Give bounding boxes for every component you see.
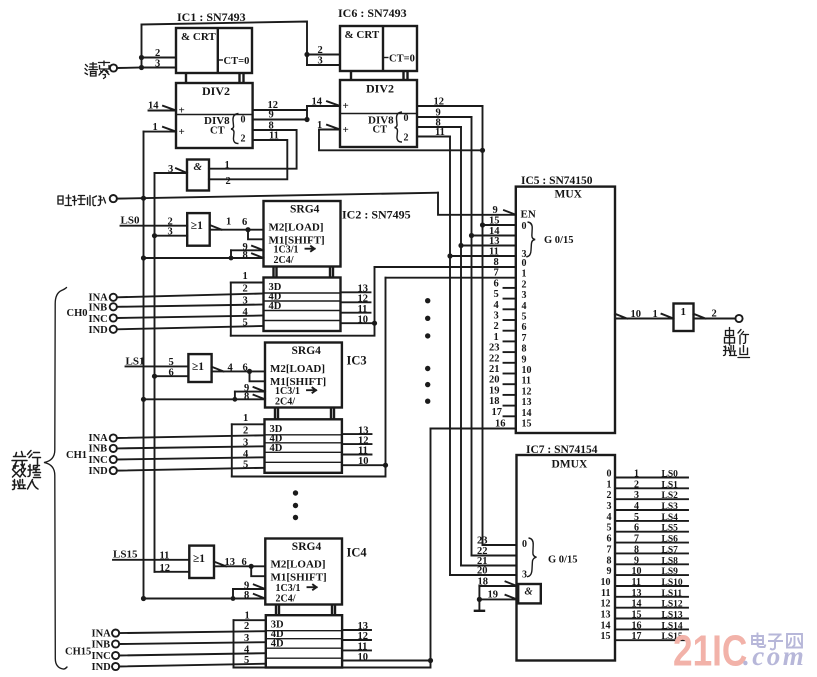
svg-text:14: 14: [522, 408, 532, 419]
node LS0 input: [121, 215, 188, 227]
svg-text:18: 18: [489, 396, 500, 407]
svg-text:1: 1: [494, 332, 499, 343]
wire IC4 output 10 to MUX input 15 and ring: [234, 429, 516, 668]
pin data inputs inner labels 0-15: [522, 258, 532, 430]
svg-text:& CRT: & CRT: [181, 31, 216, 43]
svg-text:CT: CT: [210, 126, 225, 137]
svg-text:& CRT: & CRT: [345, 29, 380, 41]
svg-text:LS15: LS15: [113, 549, 138, 561]
svg-text:≥1: ≥1: [192, 361, 204, 373]
svg-text:8: 8: [494, 257, 499, 268]
node LS0-LS15 output labels: [662, 470, 683, 643]
wire IC2 clock pins 9,8: [141, 242, 264, 261]
svg-text:.com: .com: [743, 641, 806, 671]
svg-text:0: 0: [404, 113, 409, 124]
gate OR IC3 (>=1): [152, 354, 212, 382]
svg-text:6: 6: [242, 557, 247, 568]
svg-text:&: &: [525, 587, 534, 598]
pin DMUX output pin numbers: [632, 469, 642, 643]
node LS1 input: [126, 356, 189, 368]
wire IC6 output 12: [417, 97, 483, 108]
svg-text:2: 2: [226, 176, 231, 187]
wire select bus B (IC6 QB): [469, 117, 517, 556]
wire IC2 output 10 to MUX input 0 and ring: [231, 267, 516, 336]
svg-text:IC3: IC3: [347, 354, 367, 368]
pin data inputs 0-15 labels: [489, 257, 506, 430]
svg-text:1: 1: [243, 271, 248, 282]
svg-text:2: 2: [712, 309, 717, 320]
counter IC1 clock input pin 14: [148, 101, 185, 117]
svg-text:7: 7: [494, 268, 499, 279]
svg-text:8: 8: [243, 250, 248, 261]
svg-text:1: 1: [653, 309, 658, 320]
svg-text:4: 4: [607, 512, 612, 523]
wire clear to IC1 pins 2,3: [117, 25, 176, 71]
svg-text:M1[SHIFT]: M1[SHIFT]: [271, 572, 327, 584]
svg-text:2: 2: [634, 479, 639, 490]
terminal CH0 inputs INA-IND: [67, 293, 117, 337]
svg-text:G 0/15: G 0/15: [548, 555, 577, 566]
svg-text:CH15: CH15: [65, 646, 91, 657]
svg-text:LS13: LS13: [662, 611, 683, 621]
svg-text:4: 4: [634, 501, 639, 512]
svg-text:0: 0: [522, 539, 527, 550]
svg-text:14: 14: [601, 620, 611, 631]
wire IC2 serial input pin 1: [231, 271, 264, 336]
svg-text:7: 7: [607, 544, 612, 555]
pin DMUX enable 19: [479, 590, 517, 601]
terminal CH1 inputs INA-IND: [66, 433, 117, 477]
buffer gate 1: [674, 304, 694, 332]
svg-text:23: 23: [477, 536, 488, 547]
svg-text:INA: INA: [92, 628, 112, 639]
wire IC4 outputs 13,12,11: [342, 621, 371, 652]
svg-text:15: 15: [601, 631, 611, 642]
wire IC6 output 11: [417, 127, 450, 138]
svg-text:9: 9: [634, 555, 639, 566]
svg-text:SRG4: SRG4: [292, 541, 322, 553]
terminal 时钟脉冲 (clock input): [58, 195, 117, 206]
wire select bus C (IC6 QC): [458, 127, 516, 566]
svg-text:10: 10: [632, 566, 642, 577]
svg-text:6: 6: [242, 217, 247, 228]
wire IC6 output 9: [417, 108, 472, 119]
svg-text:DMUX: DMUX: [552, 459, 588, 471]
svg-text:≥1: ≥1: [193, 553, 205, 565]
svg-text:IC2 : SN7495: IC2 : SN7495: [342, 208, 411, 222]
ellipsis MUX omitted inputs: [425, 298, 430, 404]
svg-text:2: 2: [607, 490, 612, 501]
svg-text:3: 3: [607, 501, 612, 512]
ellipsis between IC3 and IC4: [293, 490, 298, 520]
pin DMUX select inputs 23,22,21,20: [477, 536, 577, 581]
svg-text:13: 13: [489, 236, 500, 247]
svg-text:20: 20: [489, 375, 500, 386]
svg-text:17: 17: [632, 631, 642, 642]
svg-text:6: 6: [607, 534, 612, 545]
svg-text:EN: EN: [521, 209, 536, 221]
svg-text:2: 2: [241, 134, 246, 145]
pin select inputs 15,14,13,11: [489, 216, 573, 261]
wire IC4 parallel inputs pins 2-5: [119, 621, 266, 666]
svg-text:1: 1: [681, 306, 687, 318]
pin DMUX inner output labels 0-15: [601, 469, 612, 643]
svg-text:12: 12: [601, 599, 611, 610]
svg-text:13: 13: [522, 397, 532, 408]
svg-text:SRG4: SRG4: [290, 204, 320, 216]
svg-text:16: 16: [632, 620, 642, 631]
svg-text:DIV2: DIV2: [202, 84, 230, 98]
svg-text:4D: 4D: [270, 443, 283, 454]
label 并行数据输入: [12, 451, 41, 490]
svg-text:19: 19: [489, 385, 500, 396]
register IC2 SN7495 label: [342, 208, 411, 222]
svg-text:DIV2: DIV2: [366, 82, 394, 96]
terminal CH15 inputs INA-IND: [65, 628, 119, 672]
svg-text:15: 15: [522, 419, 532, 430]
wire IC3 output 10 to MUX input 1 and ring: [232, 278, 516, 477]
wire data input stubs: [504, 288, 516, 416]
brace parallel data input group: [44, 288, 67, 670]
wire IC3 parallel inputs pins 2-5: [117, 425, 265, 470]
svg-text:10: 10: [601, 577, 611, 588]
svg-text:3: 3: [522, 570, 527, 581]
svg-text:M2[LOAD]: M2[LOAD]: [269, 222, 324, 234]
wire IC1 output 9 to IC6 pin 14: [253, 106, 310, 122]
counter IC1 gate section &CRT: [176, 28, 252, 83]
svg-text:7: 7: [522, 333, 527, 344]
wire IC2 parallel inputs pins 2-5: [117, 284, 264, 330]
svg-text:IC4: IC4: [347, 546, 368, 560]
counter IC6 divider section DIV2/DIV8: [340, 80, 417, 147]
svg-text:9: 9: [607, 566, 612, 577]
wire clear-net top from IC1 to IC6: [142, 22, 308, 55]
svg-text:3: 3: [522, 290, 527, 301]
svg-text:IC6 : SN7493: IC6 : SN7493: [338, 6, 407, 20]
wire IC1 output 8 to AND gate input 1: [209, 121, 297, 169]
counter IC6 clock input pin 14 from IC1: [307, 97, 349, 113]
svg-text:LS7: LS7: [662, 545, 679, 555]
gate AND enable inside DMUX: [518, 584, 541, 603]
counter IC6 clock input pin 1 feedback: [317, 120, 485, 153]
watermark 电子网: [752, 633, 802, 650]
svg-text:8: 8: [634, 544, 639, 555]
svg-text:21IC: 21IC: [673, 627, 747, 676]
ground: [474, 586, 486, 611]
counter IC1 divider section DIV2/DIV8: [176, 83, 253, 148]
wire MUX output pin 10: [615, 309, 674, 320]
svg-text:0: 0: [607, 469, 612, 480]
watermark 21IC logo: [673, 627, 747, 676]
terminal 清零 (clear input): [85, 61, 117, 79]
svg-text:CH0: CH0: [67, 308, 88, 319]
svg-text:LS2: LS2: [662, 491, 679, 501]
counter IC1 clock input pin 1: [144, 122, 185, 138]
wire IC3 gate output to M2/M1: [212, 363, 265, 382]
svg-text:3: 3: [155, 59, 160, 70]
svg-text:INC: INC: [92, 651, 111, 662]
wire IC4 gate output to M2/M1: [214, 557, 265, 576]
svg-text:1: 1: [522, 269, 527, 280]
svg-text:5: 5: [494, 289, 499, 300]
svg-text:&: &: [194, 161, 203, 173]
svg-text:1: 1: [225, 160, 230, 171]
svg-text:IND: IND: [89, 325, 109, 336]
svg-text:4D: 4D: [271, 639, 284, 650]
wire IC1 output 12: [253, 100, 307, 111]
svg-text:IC5 : SN74150: IC5 : SN74150: [521, 175, 593, 187]
svg-text:10: 10: [631, 309, 642, 320]
wire IC2 outputs 13,12,11: [341, 284, 371, 315]
svg-text:2C4/: 2C4/: [275, 396, 295, 407]
svg-text:G 0/15: G 0/15: [544, 235, 573, 246]
svg-text:0: 0: [241, 115, 246, 126]
counter IC6 SN7493 label: [338, 6, 407, 20]
svg-text:CH1: CH1: [66, 450, 87, 461]
register IC4 label: [347, 546, 368, 560]
register IC4 data block: [266, 615, 342, 667]
wire IC6 output 8: [417, 118, 461, 129]
svg-text:0: 0: [522, 258, 527, 269]
svg-text:15: 15: [632, 610, 642, 621]
svg-text:2: 2: [404, 133, 409, 144]
svg-text:17: 17: [492, 407, 503, 418]
wire IC3 serial input pin 1: [232, 413, 265, 477]
svg-text:14: 14: [632, 599, 642, 610]
svg-text:0: 0: [522, 221, 527, 232]
pin DMUX enable 18: [478, 577, 518, 588]
wire select bus A (IC6 QA): [480, 106, 517, 545]
terminal 串行输出 (serial output): [694, 309, 750, 358]
svg-text:1: 1: [243, 413, 248, 424]
svg-text:12: 12: [522, 386, 532, 397]
svg-text:23: 23: [489, 343, 500, 354]
svg-text:13: 13: [601, 610, 611, 621]
wire clock bus vertical: [143, 132, 145, 599]
svg-text:SRG4: SRG4: [292, 345, 322, 357]
svg-text:IND: IND: [89, 466, 109, 477]
svg-text:INC: INC: [89, 314, 108, 325]
svg-text:CT: CT: [373, 125, 388, 136]
multiplexer IC5 MUX box: [516, 187, 615, 433]
svg-text:INC: INC: [89, 455, 108, 466]
svg-text:6: 6: [634, 523, 639, 534]
svg-text:2: 2: [318, 45, 323, 56]
svg-text:13: 13: [632, 588, 642, 599]
svg-text:21: 21: [489, 364, 500, 375]
svg-text:4: 4: [494, 300, 500, 311]
svg-text:LS6: LS6: [662, 535, 679, 545]
svg-text:7: 7: [634, 534, 639, 545]
svg-text:+: +: [179, 105, 185, 117]
register IC3 data block: [265, 419, 342, 473]
svg-text:11: 11: [601, 588, 610, 599]
svg-text:2C4/: 2C4/: [274, 255, 294, 266]
svg-text:5: 5: [522, 312, 527, 323]
svg-text:2: 2: [243, 425, 248, 436]
svg-text:16: 16: [495, 419, 506, 430]
pin DMUX outputs 0-15 wires and labels: [615, 478, 688, 641]
wire AND-gate output bus vertical: [154, 173, 156, 572]
svg-text:11: 11: [522, 376, 531, 387]
svg-text:1: 1: [634, 469, 639, 480]
svg-text:1: 1: [607, 479, 612, 490]
wire select bus D (IC6 QD): [447, 137, 516, 576]
svg-text:2: 2: [243, 284, 248, 295]
svg-text:5: 5: [607, 523, 612, 534]
wire IC4 serial input pin 1: [234, 611, 266, 668]
gate OR IC2 (>=1): [152, 213, 210, 246]
svg-text:3: 3: [634, 490, 639, 501]
register IC2 control block SRG4: [264, 201, 341, 278]
svg-text:1: 1: [226, 217, 231, 228]
svg-text:10: 10: [522, 365, 532, 376]
wire IC1 output 11 to AND gate input 2: [209, 131, 287, 180]
svg-text:LS11: LS11: [662, 589, 683, 599]
svg-text:22: 22: [489, 353, 500, 364]
svg-text:5: 5: [634, 512, 639, 523]
svg-text:+: +: [343, 100, 349, 112]
svg-text:11: 11: [489, 247, 499, 258]
svg-text:9: 9: [493, 205, 498, 216]
wire IC6 pins 2,3 clear: [304, 45, 340, 67]
svg-text:INA: INA: [89, 433, 109, 444]
wire IC2 gate output to M2/M1: [210, 217, 264, 240]
svg-text:3: 3: [494, 311, 499, 322]
register IC3 label: [347, 354, 367, 368]
svg-text:2: 2: [522, 279, 527, 290]
counter IC6 gate section &CRT: [340, 26, 417, 80]
watermark .com: [743, 641, 806, 671]
demultiplexer IC7 SN74154 label: [526, 444, 598, 456]
demultiplexer IC7 DMUX box: [517, 455, 616, 661]
wire IC3 outputs 13,12,11: [342, 425, 372, 456]
register IC2 data block: [264, 278, 341, 332]
svg-text:LS10: LS10: [662, 578, 683, 588]
svg-text:LS4: LS4: [662, 513, 679, 523]
svg-text:LS8: LS8: [662, 556, 679, 566]
svg-text:8: 8: [522, 344, 527, 355]
svg-text:M2[LOAD]: M2[LOAD]: [271, 558, 326, 570]
svg-text:3: 3: [318, 56, 323, 67]
svg-text:MUX: MUX: [555, 189, 583, 201]
svg-text:4: 4: [522, 301, 527, 312]
svg-text:≥1: ≥1: [191, 220, 203, 232]
svg-text:4D: 4D: [269, 301, 282, 312]
gate AND (feedback decode): [155, 160, 231, 191]
svg-text:11: 11: [160, 550, 170, 561]
wire IC4 clock pins 9,8: [141, 581, 265, 602]
svg-text:LS12: LS12: [662, 600, 683, 610]
svg-text:8: 8: [244, 391, 249, 402]
pin EN strobe (9): [493, 205, 536, 221]
svg-text:15: 15: [489, 216, 500, 227]
wire clock line to MUX EN: [117, 193, 516, 215]
register IC3 control block SRG4: [265, 343, 342, 420]
svg-text:+: +: [343, 124, 349, 136]
multiplexer IC5 SN74150 label: [521, 175, 593, 187]
svg-text:IND: IND: [92, 662, 112, 673]
wire IC3 clock pins 9,8: [141, 383, 265, 402]
svg-text:LS9: LS9: [662, 567, 679, 577]
node LS15 input: [113, 549, 189, 561]
svg-text:20: 20: [477, 566, 488, 577]
svg-text:11: 11: [632, 577, 641, 588]
svg-text:LS5: LS5: [662, 524, 679, 534]
svg-text:2: 2: [494, 321, 499, 332]
svg-text:LS3: LS3: [662, 502, 679, 512]
svg-text:+: +: [179, 126, 185, 138]
svg-text:LS1: LS1: [662, 480, 679, 490]
gate OR IC4 (>=1): [155, 546, 215, 578]
counter IC1 SN7493 label: [177, 10, 246, 24]
svg-text:CT=0: CT=0: [224, 56, 250, 67]
svg-text:INB: INB: [89, 303, 108, 314]
svg-text:2C4/: 2C4/: [276, 593, 296, 604]
svg-text:9: 9: [522, 354, 527, 365]
svg-text:INB: INB: [89, 444, 108, 455]
register IC4 control block SRG4: [265, 539, 342, 616]
svg-text:CT=0: CT=0: [389, 54, 415, 65]
svg-text:13: 13: [225, 557, 236, 568]
svg-text:6: 6: [494, 278, 499, 289]
svg-text:2: 2: [155, 48, 160, 59]
svg-text:4: 4: [228, 363, 234, 374]
svg-text:LS0: LS0: [121, 215, 140, 227]
svg-text:INB: INB: [92, 639, 111, 650]
svg-text:6: 6: [522, 322, 527, 333]
svg-text:8: 8: [607, 555, 612, 566]
svg-text:M2[LOAD]: M2[LOAD]: [270, 363, 325, 375]
svg-text:LS0: LS0: [662, 470, 679, 480]
